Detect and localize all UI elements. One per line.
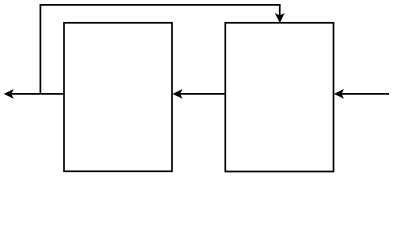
wire: feedback vertical segment down into B2 top [279, 5, 281, 16]
arrowhead: output arrow pointing left [4, 90, 13, 98]
block B2 (right box) [225, 23, 333, 172]
arrowhead: input arrow pointing left into B2 [335, 90, 344, 98]
wire: output line from B1 left edge going left [10, 93, 64, 95]
wire: middle line from B2 left edge to B1 right edge [178, 93, 225, 95]
arrowhead: feedback arrow pointing down into B2 [276, 14, 284, 23]
arrowhead: middle arrow pointing left into B1 [173, 90, 182, 98]
wire: feedback vertical segment up from output wire [39, 5, 41, 94]
block B1 (left box) [64, 23, 172, 172]
wire: input line from right edge of figure into B2 [340, 93, 389, 95]
wire: feedback horizontal segment along top [40, 4, 281, 6]
